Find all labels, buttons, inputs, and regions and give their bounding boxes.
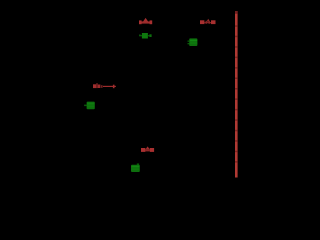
- potentiometer R1: [139, 18, 152, 24]
- value label R4: [93, 83, 116, 88]
- potentiometer R5: [141, 146, 154, 152]
- battery B1: [235, 11, 238, 178]
- diode D2: [131, 164, 140, 173]
- potentiometer R3: [200, 19, 216, 24]
- resistor R2: [139, 33, 151, 39]
- diode D1: [84, 102, 95, 110]
- IC U1: [188, 38, 198, 46]
